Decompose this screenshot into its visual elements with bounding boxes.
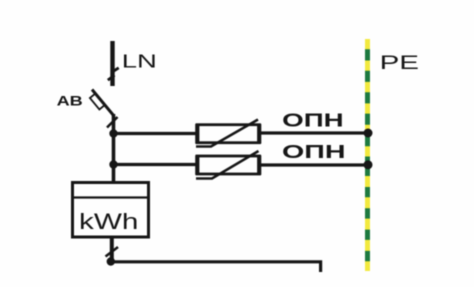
- svg-text:LN: LN: [122, 52, 157, 72]
- svg-text:PE: PE: [380, 52, 419, 74]
- svg-text:ОПН: ОПН: [282, 141, 346, 162]
- svg-text:ОПН: ОПН: [282, 109, 344, 130]
- svg-text:АВ: АВ: [57, 93, 83, 108]
- svg-text:kWh: kWh: [79, 209, 138, 234]
